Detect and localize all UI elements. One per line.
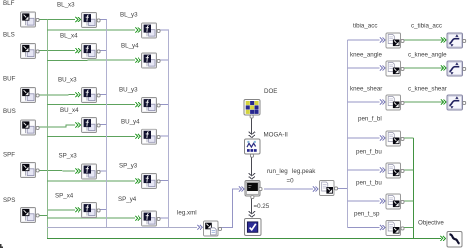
output file leg.peak	[320, 181, 338, 196]
wire bus to pen_f_bu	[348, 168, 385, 173]
wire leg.xml to run_leg riser	[219, 187, 244, 228]
Objective node	[447, 232, 462, 248]
label tibia_acc	[353, 23, 377, 30]
wire bus branch to BL_y4	[47, 58, 140, 63]
wire BUF to BU_x3	[39, 92, 80, 97]
label c_tibia_acc	[411, 23, 442, 30]
svg-text:knee_angle: knee_angle	[350, 52, 383, 59]
svg-text:SP_y3: SP_y3	[119, 163, 138, 170]
DOE node	[244, 100, 260, 119]
svg-text:MOGA-II: MOGA-II	[264, 132, 289, 139]
corner mark bottom-left	[0, 244, 3, 248]
transfer node c_tibia_acc	[447, 33, 466, 48]
wire leg.peak vertical bus	[347, 40, 349, 228]
calculator BL_x3	[82, 13, 101, 28]
svg-text:BU_y4: BU_y4	[121, 119, 140, 126]
label SP_x4	[55, 193, 74, 200]
calculator BL_y4	[142, 53, 161, 68]
svg-text:BU_y3: BU_y3	[119, 87, 138, 94]
wire bus to pen_t_bu	[348, 199, 385, 204]
label pen_t_sp	[354, 211, 380, 218]
wire SP_y3 output stub	[160, 180, 169, 182]
label SPS	[3, 197, 15, 204]
label SP_x3	[59, 153, 78, 160]
label BL_y3	[120, 12, 138, 19]
label knee_angle	[350, 52, 383, 59]
calculator BU_y3	[142, 98, 161, 113]
label Objective	[418, 220, 444, 227]
output file tibia_acc	[386, 33, 404, 48]
label DOE	[264, 88, 277, 95]
label pen_t_bu	[356, 180, 382, 187]
svg-text:leg.peak: leg.peak	[292, 168, 316, 175]
wire BU_x4 output stub	[100, 124, 107, 126]
wire bus to knee_angle	[348, 66, 385, 71]
svg-text:BLF: BLF	[3, 0, 15, 7]
output file knee_shear	[386, 95, 404, 110]
svg-text:BL_x4: BL_x4	[60, 33, 78, 40]
input file leg.xml	[204, 221, 222, 236]
output file pen_f_bu	[386, 163, 404, 178]
label knee_shear	[350, 86, 382, 93]
wire pen_t_bu to bus	[404, 200, 414, 202]
label SP_y4	[118, 196, 137, 203]
svg-text:pen_t_sp: pen_t_sp	[354, 211, 380, 218]
svg-text:BU_x3: BU_x3	[58, 77, 77, 84]
wire BLS to BL_x4	[39, 48, 80, 53]
svg-text:leg.xml: leg.xml	[177, 210, 197, 217]
output file pen_f_bl	[386, 131, 404, 146]
svg-text:SPF: SPF	[3, 152, 15, 159]
wire vertical green bus at x47	[47, 20, 49, 239]
label BU_x4	[60, 107, 79, 114]
svg-text:pen_t_bu: pen_t_bu	[356, 180, 382, 187]
wire BL_y3 output stub	[160, 29, 169, 31]
label BL_x3	[57, 2, 75, 9]
wire SPF to SP_x3	[39, 169, 80, 174]
label BL_x4	[60, 33, 78, 40]
wire BL_y4 output stub	[160, 59, 169, 61]
wire bus to pen_t_sp	[348, 225, 385, 230]
wire bus branch to BL_y3	[47, 28, 140, 33]
wire pen_f_bl to bus	[404, 137, 414, 139]
wire run_leg to leg.peak	[264, 187, 318, 192]
wire bus branch to SP_y4	[47, 216, 140, 221]
svg-text:c_knee_angle: c_knee_angle	[408, 52, 447, 59]
label BLS	[3, 32, 15, 39]
output file pen_t_bu	[386, 194, 404, 209]
MOGA-II scheduler node	[245, 139, 261, 157]
label pen_f_bu	[356, 149, 382, 156]
wire pen_f_bu to bus	[404, 169, 414, 171]
svg-text:BUF: BUF	[3, 76, 16, 83]
calculator SP_y4	[142, 211, 161, 226]
svg-text:=0: =0	[287, 178, 295, 185]
wire col2 vertical bus	[106, 20, 108, 228]
exit condition check node	[245, 219, 262, 236]
label run_leg	[267, 168, 288, 175]
label leg.peak	[292, 168, 316, 175]
svg-text:Objective: Objective	[418, 220, 444, 227]
wire BU_y3 output stub	[160, 104, 169, 106]
wire bus branch to BU_y4	[47, 134, 140, 139]
svg-text:BUS: BUS	[3, 108, 16, 115]
wire bus to knee_shear	[348, 100, 385, 105]
label MOGA-II	[264, 132, 289, 139]
calculator SP_x3	[82, 164, 101, 179]
wire BLF to BL_x3	[39, 17, 80, 22]
svg-text:DOE: DOE	[264, 88, 277, 95]
wire knee_angle to c_knee_angle	[404, 66, 446, 71]
label BU_y3	[119, 87, 138, 94]
label =0	[287, 178, 295, 185]
wire SP_x3 output stub	[100, 170, 107, 172]
input variable BLS	[21, 44, 40, 59]
label BU_x3	[58, 77, 77, 84]
svg-text:=0.25: =0.25	[254, 203, 270, 210]
svg-text:pen_f_bl: pen_f_bl	[358, 116, 382, 123]
wire col3 vertical bus	[168, 30, 170, 227]
calculator BL_y3	[142, 23, 161, 38]
input variable BUS	[21, 120, 40, 135]
wire bus branch to BU_y3	[47, 102, 140, 107]
wire DOE to MOGA	[249, 117, 255, 138]
svg-text:BL_y3: BL_y3	[120, 12, 138, 19]
wire BL_x4 output stub	[100, 50, 107, 52]
svg-text:c_tibia_acc: c_tibia_acc	[411, 23, 442, 30]
svg-text:BL_x3: BL_x3	[57, 2, 75, 9]
wire bottom green line to Objective	[47, 236, 445, 241]
label SP_y3	[119, 163, 138, 170]
calculator BU_x3	[82, 88, 101, 103]
svg-text:c_knee_shear: c_knee_shear	[408, 86, 447, 93]
label pen_f_bl	[358, 116, 382, 123]
transfer node c_knee_shear	[447, 95, 466, 110]
label BUF	[3, 76, 16, 83]
wire BU_y4 output stub	[160, 135, 169, 137]
input variable SPS	[21, 208, 40, 223]
wire run_leg to exit check	[249, 197, 255, 217]
label SPF	[3, 152, 15, 159]
label c_knee_shear	[408, 86, 447, 93]
label leg.xml	[177, 210, 197, 217]
label BU_y4	[121, 119, 140, 126]
svg-text:BLS: BLS	[3, 32, 15, 39]
output file knee_angle	[386, 61, 404, 76]
label BUS	[3, 108, 16, 115]
wire SP_x4 output stub	[100, 209, 107, 211]
output file pen_t_sp	[386, 221, 404, 236]
wire SPS to SP_x4	[39, 207, 80, 215]
wire BUS to BU_x4	[39, 123, 80, 128]
svg-text:SP_x3: SP_x3	[59, 153, 78, 160]
svg-text:SP_y4: SP_y4	[118, 196, 137, 203]
label BL_y4	[121, 43, 139, 50]
svg-text:SPS: SPS	[3, 197, 15, 204]
wire bus branch to SP_y3	[47, 179, 140, 184]
wire knee_shear to c_knee_shear	[404, 100, 446, 105]
calculator BL_x4	[82, 44, 101, 59]
svg-text:run_leg: run_leg	[267, 168, 288, 175]
wire BL_x3 output stub	[100, 19, 107, 21]
svg-text:knee_shear: knee_shear	[350, 86, 382, 93]
wire BU_x3 output stub	[100, 94, 107, 96]
label c_knee_angle	[408, 52, 447, 59]
svg-text:pen_f_bu: pen_f_bu	[356, 149, 382, 156]
wire tibia_acc to c_tibia_acc	[404, 38, 446, 43]
calculator SP_y3	[142, 174, 161, 189]
run_leg DOS node	[245, 181, 262, 199]
wire horizontal bus into leg.xml	[47, 225, 202, 230]
label =0.25	[254, 203, 270, 210]
input variable BUF	[21, 88, 40, 103]
calculator BU_x4	[82, 118, 101, 133]
svg-text:BL_y4: BL_y4	[121, 43, 139, 50]
svg-text:BU_x4: BU_x4	[60, 107, 79, 114]
wire bus to tibia_acc	[348, 38, 385, 43]
transfer node c_knee_angle	[447, 61, 466, 76]
wire leg.peak output stub	[338, 188, 348, 190]
svg-text:tibia_acc: tibia_acc	[353, 23, 377, 30]
calculator SP_x4	[82, 203, 101, 218]
wire SP_y4 output stub	[160, 217, 169, 219]
wire bus to pen_f_bl	[348, 136, 385, 141]
wire pen_t_sp to bus	[404, 227, 414, 229]
calculator BU_y4	[142, 129, 161, 144]
input variable SPF	[21, 163, 40, 178]
wire right green bus vertical	[413, 138, 415, 238]
label BLF	[3, 0, 15, 7]
svg-text:SP_x4: SP_x4	[55, 193, 74, 200]
input variable BLF	[21, 12, 40, 27]
wire MOGA to run_leg	[249, 156, 255, 179]
